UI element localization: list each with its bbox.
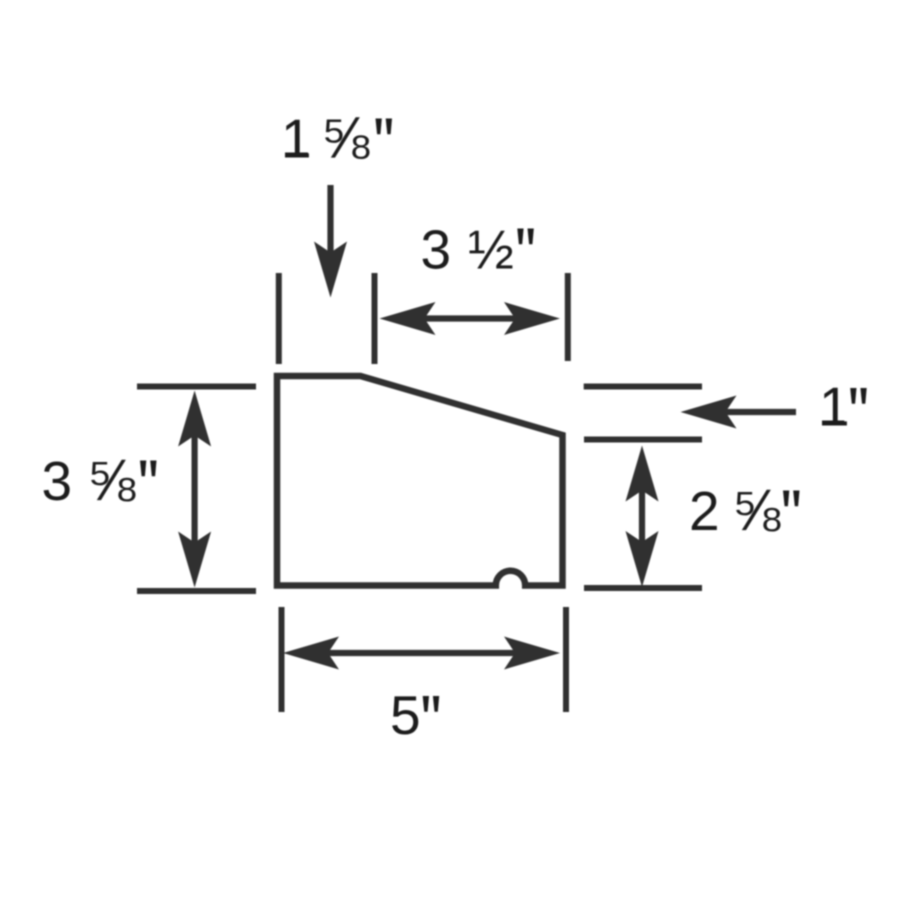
svg-text:⅝: ⅝ [321,105,370,170]
svg-text:½: ½ [468,218,514,280]
svg-text:3: 3 [421,218,452,280]
svg-text:3: 3 [42,450,73,512]
svg-text:2: 2 [689,480,720,542]
svg-text:1: 1 [281,108,312,170]
svg-text:1: 1 [819,376,850,438]
svg-text:⅝: ⅝ [732,478,781,543]
svg-text:⅝: ⅝ [87,448,136,513]
svg-text:5: 5 [390,684,421,746]
